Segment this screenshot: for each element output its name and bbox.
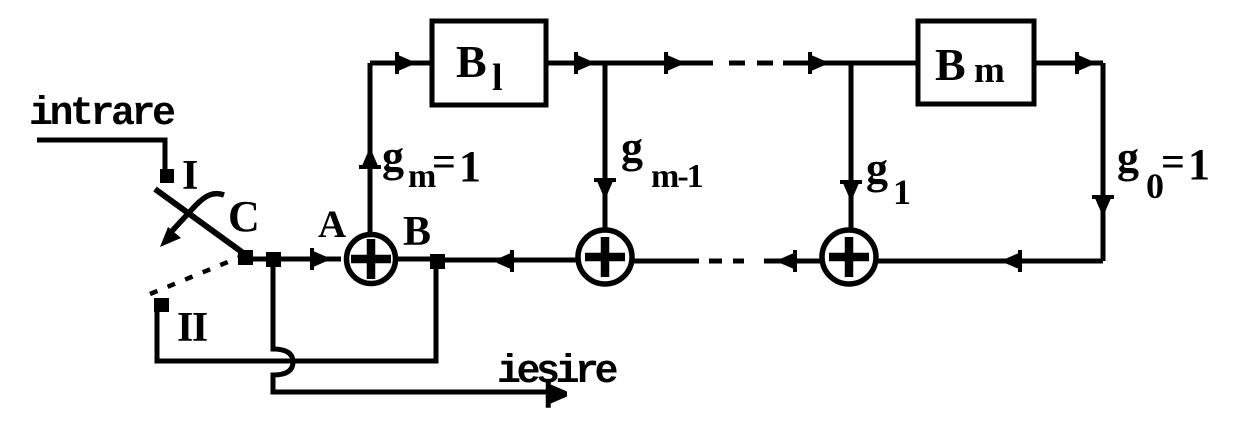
svg-text:=: = [1161, 140, 1185, 186]
svg-text:B: B [456, 36, 487, 87]
wire B1 to tap m-1 [546, 61, 713, 66]
wire node B to adder2 [445, 258, 577, 263]
label gm=1 [382, 132, 481, 195]
svg-text:m-1: m-1 [651, 158, 703, 195]
wire right vertical g0 [1101, 63, 1106, 261]
svg-text:intrare: intrare [29, 92, 175, 137]
svg-text:C: C [228, 192, 260, 241]
svg-text:1: 1 [459, 142, 481, 191]
svg-text:m: m [974, 50, 1005, 91]
svg-text:g: g [621, 123, 643, 172]
label B1 [456, 36, 503, 99]
wire tap g1 [849, 63, 854, 229]
wire Bm to right corner [1034, 61, 1103, 66]
svg-text:A: A [318, 203, 346, 246]
wire tap gm-1 [603, 63, 608, 229]
wire input from intrare [37, 140, 165, 170]
register B1 [432, 21, 546, 105]
contact II [154, 298, 169, 312]
wire top row to Bm [783, 61, 916, 66]
svg-text:g: g [382, 132, 404, 181]
svg-text:1: 1 [893, 172, 911, 212]
adder U2 [578, 230, 632, 284]
wire feedback up from adder1 [368, 63, 373, 233]
svg-text:B: B [403, 209, 431, 255]
wire iesire tap with hop [273, 267, 560, 392]
node C [238, 250, 253, 265]
node junction [266, 252, 281, 267]
wire adder1 to node B [397, 257, 430, 262]
dashed wire top row [729, 61, 773, 66]
switch motion arrow [172, 194, 224, 231]
adder U1 [347, 235, 396, 284]
wire II feedback [157, 268, 436, 361]
svg-text:g: g [1117, 133, 1139, 182]
svg-text:iesire: iesire [497, 350, 618, 395]
wire top row left to B1 [370, 61, 430, 66]
label g1 [866, 144, 911, 212]
svg-text:B: B [935, 39, 966, 90]
label g0=1 [1117, 133, 1210, 206]
adder U3 [822, 230, 876, 284]
dashed wire adder2 to adder3 [632, 259, 699, 264]
dashed wire to contact II [150, 257, 240, 294]
wire adder3 to right corner [877, 259, 1103, 264]
svg-text:g: g [866, 144, 888, 193]
svg-text:=: = [432, 140, 456, 186]
svg-text:I: I [182, 153, 198, 199]
switch blade [155, 189, 246, 255]
svg-text:II: II [177, 305, 207, 351]
svg-text:l: l [492, 57, 503, 99]
label Bm [935, 39, 1005, 91]
wire C to adder A [253, 257, 341, 262]
contact I [160, 169, 174, 183]
node B [430, 254, 445, 269]
svg-text:1: 1 [1188, 140, 1210, 189]
label gm-1 [621, 123, 703, 195]
register Bm [918, 21, 1034, 104]
